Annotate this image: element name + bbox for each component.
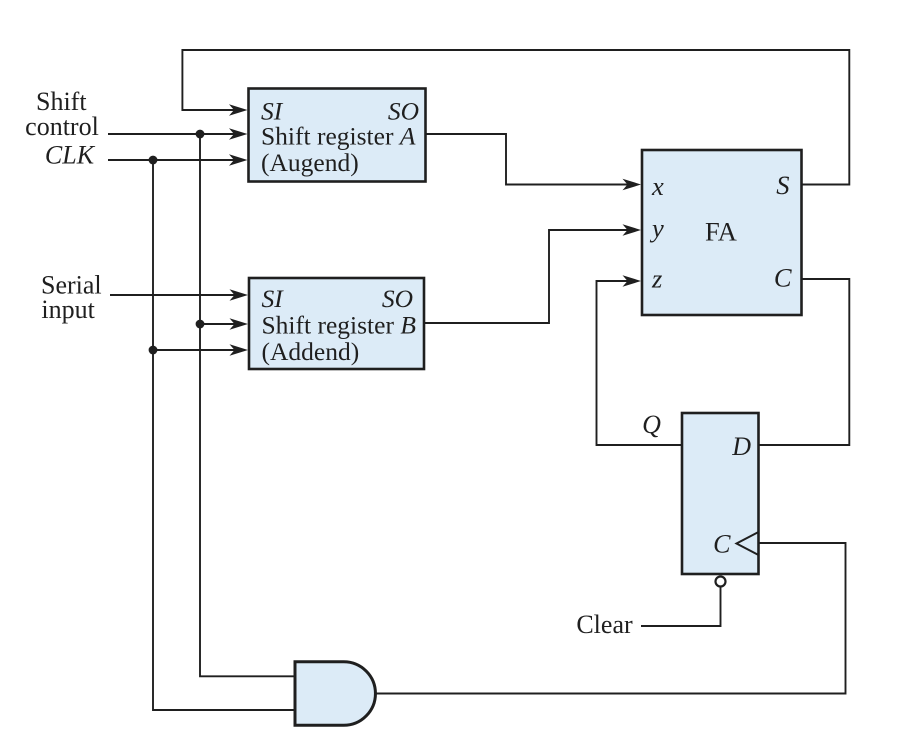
svg-text:z: z bbox=[651, 264, 662, 294]
svg-text:SI: SI bbox=[262, 284, 285, 313]
svg-text:control: control bbox=[25, 112, 99, 141]
svg-text:Shift register A: Shift register A bbox=[261, 122, 416, 151]
svg-text:FA: FA bbox=[705, 217, 737, 247]
svg-text:C: C bbox=[713, 530, 731, 559]
svg-text:(Addend): (Addend) bbox=[262, 337, 360, 366]
svg-text:S: S bbox=[776, 170, 789, 200]
svg-text:Q: Q bbox=[642, 410, 661, 439]
svg-text:Shift register B: Shift register B bbox=[262, 311, 417, 340]
svg-text:D: D bbox=[731, 432, 751, 461]
svg-text:(Augend): (Augend) bbox=[261, 148, 359, 177]
svg-text:y: y bbox=[649, 213, 664, 243]
svg-text:input: input bbox=[41, 295, 95, 324]
svg-text:SO: SO bbox=[382, 284, 413, 313]
svg-text:CLK: CLK bbox=[45, 141, 96, 170]
svg-text:Clear: Clear bbox=[576, 610, 633, 639]
svg-text:x: x bbox=[651, 171, 664, 201]
svg-text:C: C bbox=[774, 263, 792, 293]
